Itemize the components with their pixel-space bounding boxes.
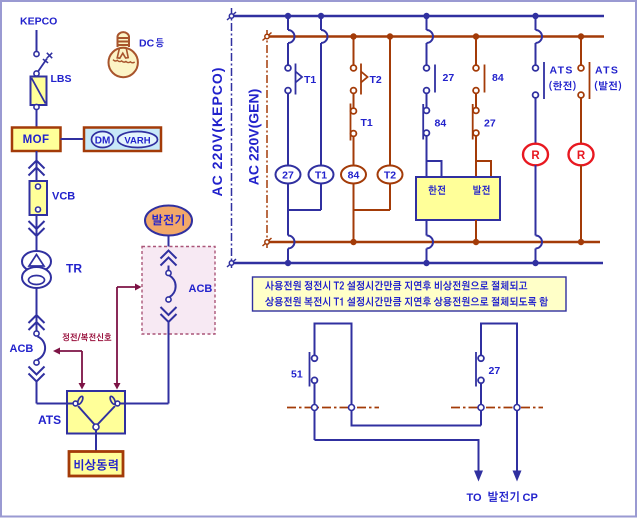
svg-text:TR: TR	[66, 262, 82, 276]
svg-text:ACB: ACB	[10, 343, 34, 355]
svg-text:R: R	[577, 150, 586, 162]
svg-text:T1: T1	[304, 74, 316, 86]
svg-text:TO: TO	[467, 492, 483, 504]
svg-text:T1: T1	[315, 170, 327, 182]
svg-text:AC 220V(GEN): AC 220V(GEN)	[246, 89, 262, 185]
svg-text:ACB: ACB	[189, 283, 213, 295]
svg-text:84: 84	[435, 118, 447, 130]
svg-text:T2: T2	[370, 74, 382, 86]
svg-text:27: 27	[484, 118, 496, 130]
svg-text:ATS: ATS	[595, 65, 619, 77]
svg-text:AC 220V(KEPCO): AC 220V(KEPCO)	[209, 67, 225, 197]
svg-text:MOF: MOF	[23, 134, 50, 146]
svg-text:27: 27	[489, 365, 501, 377]
svg-text:R: R	[531, 150, 540, 162]
svg-text:VARH: VARH	[124, 136, 150, 147]
svg-text:LBS: LBS	[51, 73, 72, 85]
svg-text:T2: T2	[384, 170, 396, 182]
svg-text:VCB: VCB	[52, 191, 75, 203]
svg-text:51: 51	[291, 369, 303, 381]
svg-text:84: 84	[492, 72, 504, 84]
svg-text:ATS: ATS	[550, 65, 574, 77]
svg-text:27: 27	[443, 72, 455, 84]
svg-text:ATS: ATS	[38, 413, 61, 427]
svg-text:DM: DM	[95, 136, 111, 147]
svg-text:DC: DC	[139, 38, 155, 50]
svg-text:84: 84	[348, 170, 360, 182]
svg-text:27: 27	[282, 170, 294, 182]
svg-text:KEPCO: KEPCO	[20, 16, 57, 28]
svg-text:CP: CP	[523, 492, 538, 504]
svg-text:T1: T1	[361, 117, 373, 129]
